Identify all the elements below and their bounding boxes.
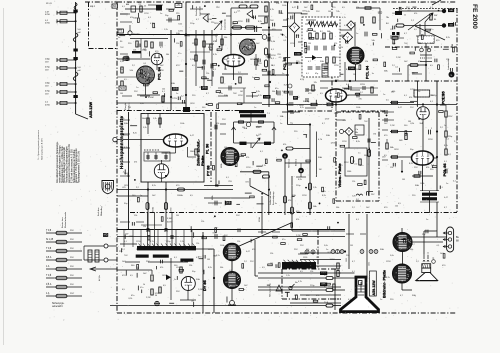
svg-text:1,2k: 1,2k (164, 29, 168, 31)
svg-text:1M: 1M (224, 147, 227, 149)
svg-text:1n: 1n (383, 94, 385, 96)
svg-text:T 0,8: T 0,8 (46, 248, 52, 250)
svg-text:Bb: Bb (356, 132, 358, 134)
svg-text:56k: 56k (410, 249, 413, 251)
svg-text:Si 1,25: Si 1,25 (46, 239, 54, 241)
svg-text:47n: 47n (178, 53, 181, 55)
svg-text:12k: 12k (176, 43, 179, 45)
svg-text:125V: 125V (250, 2, 255, 4)
svg-text:1n: 1n (380, 299, 382, 301)
svg-text:25V: 25V (70, 248, 74, 250)
svg-text:1n: 1n (118, 37, 120, 39)
svg-text:2,2M: 2,2M (396, 57, 401, 59)
svg-text:56k: 56k (364, 155, 367, 157)
svg-text:8,2k: 8,2k (410, 123, 414, 125)
svg-text:1n: 1n (174, 279, 176, 281)
svg-text:30A: 30A (318, 156, 322, 159)
svg-text:5KB: 5KB (120, 87, 125, 90)
svg-text:8,2k: 8,2k (446, 37, 450, 39)
svg-text:125V: 125V (129, 236, 134, 238)
svg-text:SW: SW (113, 5, 118, 8)
svg-text:125V: 125V (338, 47, 343, 49)
svg-text:47n: 47n (275, 88, 278, 90)
svg-text:1551: 1551 (346, 258, 348, 262)
svg-text:12k: 12k (136, 249, 139, 251)
svg-text:4,5V: 4,5V (300, 79, 305, 81)
svg-text:12k: 12k (314, 82, 317, 84)
svg-text:1n: 1n (168, 2, 170, 4)
svg-text:8,2k: 8,2k (356, 141, 360, 143)
svg-text:12k: 12k (196, 243, 199, 245)
svg-text:1n: 1n (252, 77, 254, 79)
svg-text:100k: 100k (282, 5, 286, 7)
svg-text:8,2k: 8,2k (341, 35, 345, 37)
svg-text:1M: 1M (128, 107, 131, 109)
svg-text:125V: 125V (344, 162, 349, 164)
svg-text:1560: 1560 (295, 53, 301, 55)
svg-text:125V: 125V (271, 55, 276, 57)
svg-text:1kV: 1kV (45, 85, 49, 87)
svg-text:56k: 56k (272, 91, 275, 93)
svg-text:2,2M: 2,2M (390, 125, 395, 127)
svg-text:125V: 125V (377, 11, 382, 13)
svg-text:5KB: 5KB (226, 202, 231, 205)
svg-text:47k: 47k (359, 99, 362, 101)
svg-text:Weiterfhrg.: Weiterfhrg. (100, 205, 103, 216)
svg-text:12k: 12k (201, 221, 204, 223)
svg-text:125V: 125V (448, 116, 453, 118)
svg-text:ZF 41: ZF 41 (46, 3, 52, 5)
svg-text:470: 470 (288, 200, 291, 202)
svg-text:AC,Hz: AC,Hz (98, 275, 101, 281)
svg-text:5,6k: 5,6k (256, 127, 260, 129)
svg-text:25V: 25V (70, 239, 74, 241)
svg-text:1,2k: 1,2k (180, 241, 184, 243)
svg-text:8,2k: 8,2k (430, 155, 434, 157)
svg-text:8,2k: 8,2k (124, 147, 128, 149)
svg-text:125V: 125V (334, 113, 339, 115)
svg-text:4,7k: 4,7k (270, 9, 274, 11)
svg-text:12k: 12k (336, 11, 339, 13)
svg-text:8,2k: 8,2k (121, 118, 125, 120)
svg-text:125V: 125V (124, 135, 129, 137)
svg-text:47n: 47n (360, 165, 363, 167)
svg-text:1,2k: 1,2k (344, 89, 348, 91)
svg-text:1n: 1n (444, 125, 446, 127)
svg-text:4700: 4700 (45, 23, 51, 25)
svg-text:47k: 47k (316, 295, 319, 297)
svg-text:8,2k: 8,2k (152, 185, 156, 187)
svg-text:1n: 1n (254, 107, 256, 109)
svg-text:1M: 1M (328, 11, 331, 13)
svg-text:Reichsein: Reichsein (196, 6, 198, 16)
svg-text:1n: 1n (418, 91, 420, 93)
svg-text:1551: 1551 (369, 262, 371, 266)
svg-text:47k: 47k (414, 13, 417, 15)
svg-text:1560A: 1560A (177, 194, 183, 197)
svg-text:5,6k: 5,6k (306, 11, 310, 13)
svg-text:12k: 12k (390, 167, 393, 169)
svg-text:2: 2 (431, 128, 432, 130)
svg-text:Riv-LSV: Riv-LSV (216, 34, 218, 42)
svg-text:125V: 125V (172, 98, 177, 100)
svg-text:125V: 125V (334, 65, 339, 67)
svg-text:1 A: 1 A (46, 292, 50, 295)
svg-text:3,5k: 3,5k (120, 61, 124, 63)
svg-text:8,2k: 8,2k (208, 47, 212, 49)
svg-text:600A: 600A (152, 207, 155, 212)
svg-text:12k: 12k (143, 226, 146, 228)
svg-text:1M: 1M (151, 97, 154, 99)
svg-text:1n: 1n (160, 13, 162, 15)
svg-text:PCL 85: PCL 85 (441, 91, 446, 105)
svg-text:1n: 1n (280, 123, 282, 125)
svg-text:4,7k: 4,7k (262, 165, 266, 167)
svg-text:8,2k: 8,2k (386, 277, 390, 279)
svg-text:185V: 185V (214, 23, 219, 25)
svg-text:PY 88: PY 88 (205, 165, 210, 176)
svg-text:47n: 47n (131, 295, 134, 297)
svg-text:1n: 1n (427, 252, 429, 254)
svg-text:125V: 125V (360, 84, 365, 86)
svg-text:8,2k: 8,2k (346, 69, 350, 71)
svg-text:12k: 12k (276, 3, 279, 5)
svg-text:μH: μH (78, 32, 81, 34)
svg-text:Ersatz fuer: Ersatz fuer (61, 217, 64, 228)
svg-text:1n: 1n (234, 287, 236, 289)
svg-text:1n: 1n (275, 203, 277, 205)
svg-text:47k: 47k (306, 249, 309, 251)
svg-text:56k: 56k (124, 173, 127, 175)
svg-text:47k: 47k (256, 65, 259, 67)
svg-text:185V: 185V (162, 275, 167, 277)
svg-text:uebersicht: uebersicht (52, 305, 63, 308)
svg-text:56k: 56k (224, 37, 227, 39)
svg-text:125V: 125V (428, 139, 433, 141)
svg-text:μH: μH (78, 70, 81, 72)
svg-text:% = Spannungswerte gemessen: % = Spannungswerte gemessen (37, 129, 40, 160)
svg-text:1M: 1M (176, 215, 179, 217)
svg-text:4,7k: 4,7k (342, 17, 346, 19)
svg-text:+PL: +PL (176, 4, 181, 7)
svg-text:600V: 600V (167, 222, 172, 224)
svg-text:1kV: 1kV (45, 93, 49, 95)
svg-text:12k: 12k (398, 2, 401, 4)
svg-text:Sicherungs-: Sicherungs- (52, 302, 64, 305)
svg-text:1560: 1560 (264, 96, 270, 98)
svg-text:1n: 1n (356, 33, 358, 35)
svg-text:125V: 125V (302, 195, 307, 197)
svg-text:56k: 56k (130, 70, 133, 72)
svg-text:1M: 1M (346, 95, 349, 97)
svg-text:Ersb fuer: Ersb fuer (97, 207, 100, 216)
svg-text:12k: 12k (134, 215, 137, 217)
svg-text:PCL 84: PCL 84 (158, 66, 162, 80)
svg-text:1n: 1n (323, 73, 325, 75)
svg-text:12k: 12k (162, 88, 165, 90)
svg-text:8,2k: 8,2k (128, 298, 132, 300)
svg-text:FE 2000: FE 2000 (471, 4, 478, 29)
svg-text:1560: 1560 (347, 171, 351, 173)
svg-text:1M: 1M (402, 179, 405, 181)
svg-text:240p: 240p (45, 59, 51, 61)
svg-text:Nachbargeraeten B 395 ± 15%: Nachbargeraeten B 395 ± 15% (78, 151, 81, 183)
svg-text:8,2k: 8,2k (178, 23, 182, 25)
svg-text:12k: 12k (206, 73, 209, 75)
svg-text:1n: 1n (326, 249, 328, 251)
svg-text:100k: 100k (220, 245, 224, 247)
svg-text:2,2M: 2,2M (190, 59, 195, 61)
svg-text:600A: 600A (258, 217, 261, 222)
svg-text:125V: 125V (238, 95, 243, 97)
svg-text:47k: 47k (296, 219, 299, 221)
svg-text:4,7k: 4,7k (150, 241, 154, 243)
svg-text:56k: 56k (213, 256, 216, 258)
svg-text:MB 2: MB 2 (90, 6, 96, 8)
svg-text:12k: 12k (270, 253, 273, 255)
svg-text:56k: 56k (280, 13, 283, 15)
svg-text:SW: SW (434, 15, 437, 17)
svg-text:5,6k: 5,6k (324, 245, 328, 247)
svg-text:56k: 56k (296, 2, 299, 4)
svg-text:1560: 1560 (349, 68, 355, 70)
svg-text:8,2k: 8,2k (256, 91, 260, 93)
svg-text:12k: 12k (356, 7, 359, 9)
svg-text:125V: 125V (154, 293, 159, 295)
svg-text:125V: 125V (136, 241, 141, 243)
svg-text:47k: 47k (134, 162, 137, 164)
svg-text:SKB: SKB (173, 88, 178, 91)
svg-text:1M: 1M (316, 257, 319, 259)
svg-text:8,2k: 8,2k (328, 252, 332, 254)
svg-text:125V: 125V (159, 70, 164, 72)
svg-text:125V: 125V (410, 89, 415, 91)
svg-text:12k: 12k (334, 97, 337, 99)
svg-text:8,2k: 8,2k (444, 145, 448, 147)
svg-text:47k: 47k (160, 267, 163, 269)
svg-text:25V: 25V (70, 284, 74, 286)
svg-text:8,2k: 8,2k (284, 85, 288, 87)
svg-text:Leitfar mit dem: Leitfar mit dem (269, 191, 272, 205)
svg-text:12k: 12k (365, 61, 368, 63)
svg-text:1kV: 1kV (45, 61, 49, 63)
svg-text:1n: 1n (282, 73, 284, 75)
svg-text:1n: 1n (446, 183, 448, 185)
svg-text:125V: 125V (144, 13, 149, 15)
svg-text:125V: 125V (342, 141, 347, 143)
svg-text:1n: 1n (282, 61, 284, 63)
svg-text:470p: 470p (45, 67, 51, 69)
svg-text:12k: 12k (390, 29, 393, 31)
svg-text:TE: TE (119, 30, 122, 33)
svg-text:H: H (284, 154, 286, 158)
svg-text:600A: 600A (211, 195, 214, 200)
svg-text:A59-12W: A59-12W (372, 280, 376, 296)
svg-text:0,5 A: 0,5 A (46, 283, 52, 286)
svg-text:8,2k: 8,2k (258, 21, 262, 23)
svg-text:125V: 125V (290, 43, 295, 45)
svg-text:12k: 12k (352, 195, 355, 197)
svg-text:1M: 1M (350, 245, 353, 247)
svg-text:Weiterfuehrende: Weiterfuehrende (64, 211, 67, 228)
svg-text:56k: 56k (220, 267, 223, 269)
svg-text:A55-12W: A55-12W (89, 102, 93, 118)
svg-text:8,2k: 8,2k (300, 107, 304, 109)
svg-text:1n: 1n (176, 93, 178, 95)
svg-text:Bedknd: Bedknd (296, 158, 298, 166)
svg-text:185V: 185V (394, 149, 399, 151)
svg-text:1k: 1k (306, 31, 308, 33)
svg-text:1M: 1M (408, 2, 411, 4)
svg-text:1n: 1n (136, 87, 138, 89)
svg-text:1,2k: 1,2k (313, 187, 317, 189)
svg-text:1k: 1k (143, 284, 145, 286)
svg-text:8,2k: 8,2k (262, 2, 266, 4)
svg-text:12k: 12k (395, 206, 398, 208)
svg-text:1M: 1M (353, 74, 356, 76)
svg-text:8,2k: 8,2k (213, 233, 217, 235)
svg-text:2,2M: 2,2M (198, 289, 203, 291)
svg-text:125V: 125V (430, 43, 435, 45)
svg-text:PCL 84: PCL 84 (365, 65, 370, 79)
svg-text:47k: 47k (426, 167, 429, 169)
svg-text:2,2M: 2,2M (296, 235, 301, 237)
svg-text:125V: 125V (246, 167, 251, 169)
svg-text:12k: 12k (446, 59, 449, 61)
svg-text:4700: 4700 (45, 14, 51, 16)
svg-text:8,2k: 8,2k (322, 195, 326, 197)
svg-text:Nachregelungen B 15%: Nachregelungen B 15% (40, 138, 43, 160)
svg-text:125V: 125V (386, 261, 391, 263)
svg-text:4,7k: 4,7k (213, 54, 217, 56)
svg-text:1,2k: 1,2k (286, 275, 290, 277)
svg-text:4700: 4700 (45, 104, 51, 106)
svg-text:Tonabn.: Tonabn. (133, 34, 141, 36)
svg-text:8,2k: 8,2k (208, 267, 212, 269)
svg-text:0,1: 0,1 (306, 73, 309, 75)
svg-text:1M: 1M (373, 133, 376, 135)
svg-text:T 0,8: T 0,8 (46, 275, 52, 277)
svg-text:1n: 1n (198, 295, 200, 297)
svg-text:100k: 100k (180, 123, 184, 125)
svg-text:5,2k: 5,2k (143, 127, 147, 129)
svg-text:PCL 86: PCL 86 (442, 163, 447, 177)
svg-text:25V: 25V (70, 257, 74, 259)
svg-text:1M: 1M (392, 13, 395, 15)
svg-text:PL 36: PL 36 (204, 143, 209, 154)
svg-text:5,2k: 5,2k (153, 118, 157, 120)
svg-text:8,2k: 8,2k (409, 163, 413, 165)
svg-text:240p: 240p (45, 83, 51, 85)
svg-text:12k: 12k (310, 271, 313, 273)
svg-text:1M: 1M (207, 259, 210, 261)
svg-text:47n: 47n (140, 287, 143, 289)
svg-text:8,2k: 8,2k (258, 95, 262, 97)
svg-text:125V: 125V (330, 143, 335, 145)
svg-text:5,6k: 5,6k (390, 255, 394, 257)
svg-text:8,2k: 8,2k (133, 133, 137, 135)
svg-text:600A: 600A (220, 163, 223, 168)
svg-text:12k: 12k (189, 265, 192, 267)
svg-text:12k: 12k (417, 43, 420, 45)
svg-text:2,2M: 2,2M (146, 297, 151, 299)
svg-text:47k: 47k (246, 157, 249, 159)
svg-text:Bildrohr- Platte: Bildrohr- Platte (381, 269, 386, 298)
svg-text:125V: 125V (325, 119, 330, 121)
svg-text:25V: 25V (70, 266, 74, 268)
svg-text:56k: 56k (391, 92, 394, 94)
svg-text:25V: 25V (70, 275, 74, 277)
svg-text:900 Py: 900 Py (303, 101, 309, 103)
svg-text:47k: 47k (409, 97, 412, 99)
svg-text:5,6k: 5,6k (140, 103, 144, 105)
svg-text:3,3M: 3,3M (167, 218, 172, 220)
svg-text:470p: 470p (45, 91, 51, 93)
svg-text:56k: 56k (166, 54, 169, 56)
svg-text:8,2k: 8,2k (298, 179, 302, 181)
svg-text:12k: 12k (352, 181, 355, 183)
svg-text:1n: 1n (372, 73, 374, 75)
svg-text:8,2k: 8,2k (216, 255, 220, 257)
svg-text:185V: 185V (190, 103, 195, 105)
svg-text:100k: 100k (356, 107, 360, 109)
svg-text:1M: 1M (240, 91, 243, 93)
svg-text:56k: 56k (336, 207, 339, 209)
svg-text:1M: 1M (319, 169, 322, 171)
svg-text:100k: 100k (420, 183, 424, 185)
svg-text:47k: 47k (286, 19, 289, 21)
svg-text:47p: 47p (315, 73, 318, 75)
svg-text:MD: MD (104, 234, 108, 237)
svg-text:1M: 1M (120, 93, 123, 95)
svg-text:1n: 1n (358, 152, 360, 154)
svg-text:1 A: 1 A (46, 265, 50, 268)
svg-text:8,2k: 8,2k (326, 103, 330, 105)
svg-text:Lauestadt: Lauestadt (199, 6, 202, 16)
svg-text:12k: 12k (216, 123, 219, 125)
svg-text:PCL 85: PCL 85 (283, 57, 287, 70)
svg-text:1n: 1n (426, 219, 428, 221)
svg-text:125V: 125V (208, 249, 213, 251)
svg-text:1M: 1M (280, 34, 283, 36)
svg-text:1M: 1M (224, 69, 227, 71)
svg-text:8,2: 8,2 (320, 31, 323, 33)
svg-text:4,7k: 4,7k (298, 281, 302, 283)
svg-text:25V: 25V (70, 293, 74, 295)
svg-text:56k: 56k (313, 31, 316, 33)
svg-text:47n: 47n (282, 239, 285, 241)
svg-text:125V: 125V (178, 30, 183, 32)
svg-text:1M: 1M (308, 43, 311, 45)
svg-text:18kV: 18kV (190, 151, 195, 153)
svg-text:Lautstaerke: Lautstaerke (224, 18, 227, 30)
svg-text:25V: 25V (70, 230, 74, 232)
svg-text:1n: 1n (404, 14, 406, 16)
svg-text:1kV: 1kV (45, 69, 49, 71)
svg-text:56k: 56k (372, 40, 375, 42)
svg-text:125V: 125V (238, 21, 243, 23)
svg-text:12k: 12k (237, 241, 240, 243)
svg-text:125V: 125V (330, 259, 335, 261)
svg-text:30: 30 (155, 295, 157, 297)
svg-text:1,2k: 1,2k (219, 93, 223, 95)
svg-text:47k: 47k (283, 144, 286, 146)
svg-text:125V: 125V (192, 43, 197, 45)
svg-text:50kV: 50kV (142, 118, 147, 120)
